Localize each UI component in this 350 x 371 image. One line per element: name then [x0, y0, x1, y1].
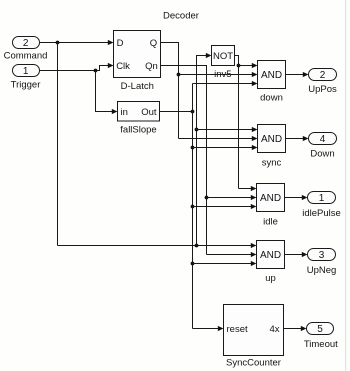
svg-text:reset: reset [227, 324, 248, 335]
svg-text:D: D [117, 38, 124, 49]
block AND sync [258, 125, 286, 169]
block AND up [257, 241, 285, 285]
junction dot fallSlope at up in3 [191, 262, 195, 266]
svg-text:Trigger: Trigger [11, 80, 41, 91]
wire Q output bus [161, 43, 179, 139]
svg-text:down: down [260, 92, 283, 103]
svg-text:AND: AND [261, 70, 282, 81]
wire SyncCounter out to Timeout [284, 326, 307, 331]
inport 1 Trigger [11, 65, 41, 91]
block AND idle [257, 184, 285, 228]
wire fallSlope bus vertical [192, 84, 194, 329]
svg-text:fallSlope: fallSlope [120, 124, 156, 135]
wire NOT branch to down AND in1 [239, 63, 258, 68]
svg-text:5: 5 [317, 324, 323, 335]
inport 2 Command [4, 37, 48, 62]
wire NOT out to idle AND in1 [239, 186, 257, 191]
junction dot fallSlope Out joins bus [191, 110, 195, 114]
wire Qn to up AND in2 [207, 252, 257, 257]
svg-text:2: 2 [320, 70, 326, 81]
junction dot Trigger branch [94, 69, 98, 73]
outport 4 Down [309, 133, 337, 160]
junction dot Command riser at up in1 [195, 244, 199, 248]
outport 5 Timeout [304, 323, 338, 351]
outport 1 idlePulse [302, 192, 341, 219]
svg-text:up: up [265, 273, 276, 284]
outport 2 UpPos [308, 69, 337, 95]
svg-text:Timeout: Timeout [304, 339, 338, 350]
svg-text:NOT: NOT [213, 51, 233, 62]
svg-text:SyncCounter: SyncCounter [226, 358, 281, 369]
svg-text:UpPos: UpPos [308, 84, 337, 95]
svg-text:1: 1 [319, 193, 325, 204]
svg-text:idle: idle [263, 216, 278, 227]
block AND down [258, 61, 286, 104]
wire Trigger horizontal [40, 70, 96, 72]
svg-text:Q: Q [150, 38, 157, 49]
block SyncCounter [224, 305, 284, 369]
wire fallSlope Out to bus [160, 111, 193, 113]
svg-text:UpNeg: UpNeg [307, 265, 337, 276]
svg-text:AND: AND [260, 193, 281, 204]
wire Q to sync AND in2 [179, 136, 258, 141]
svg-text:4x: 4x [269, 324, 279, 335]
svg-text:AND: AND [260, 250, 281, 261]
junction dot Command riser at sync in1 [195, 128, 199, 132]
svg-text:idlePulse: idlePulse [302, 208, 341, 219]
svg-text:D-Latch: D-Latch [121, 81, 154, 92]
wire Q branch to down AND in2 [179, 72, 258, 77]
junction dot NOT out at down in1 [237, 64, 241, 68]
svg-text:Out: Out [141, 107, 157, 118]
wire up AND out to UpNeg [285, 252, 308, 257]
svg-text:3: 3 [319, 250, 325, 261]
svg-text:Clk: Clk [116, 61, 130, 72]
wire fallSlope branch to down AND in3 [193, 81, 258, 86]
svg-text:Qn: Qn [145, 61, 158, 72]
wire NOT output bus [235, 56, 239, 189]
wire down AND out to UpPos [286, 72, 309, 77]
svg-text:1: 1 [23, 66, 29, 77]
svg-text:in: in [121, 107, 128, 118]
block D-Latch [114, 31, 161, 92]
wire idle AND out to idlePulse [285, 195, 308, 200]
svg-text:Command: Command [4, 51, 48, 62]
wire Qn output bus [161, 66, 207, 255]
outport 3 UpNeg [307, 249, 337, 277]
junction dot Qn at idle in2 [205, 196, 209, 200]
wire Command bottom run to up AND in1 [58, 243, 257, 248]
wire fallSlope bus to SyncCounter reset [193, 326, 224, 331]
wire Command to D input [40, 40, 114, 45]
wire Command riser to NOT input [197, 53, 212, 246]
block fallSlope [118, 102, 160, 136]
wire sync AND out to Down [286, 136, 309, 141]
wire Command vertical bus down [57, 43, 59, 246]
wire fallSlope branch to up AND in3 [193, 261, 257, 266]
wire fallSlope branch to idle AND in3 [193, 204, 257, 209]
block NOT inv5 [212, 46, 235, 81]
junction dot Q at down in2 [177, 73, 181, 77]
svg-text:sync: sync [262, 157, 282, 168]
junction dot fallSlope at idle in3 [191, 205, 195, 209]
scan edge artifact line [345, 0, 347, 371]
svg-text:Down: Down [310, 148, 334, 159]
svg-text:2: 2 [23, 38, 29, 49]
wire Trigger jog to Clk input [96, 63, 114, 71]
wire fallSlope branch to sync AND in3 [193, 145, 258, 150]
junction dot fallSlope at sync in3 [191, 146, 195, 150]
junction dot Command branch [56, 41, 60, 45]
wire Trigger down to fallSlope in [96, 71, 118, 115]
wire Qn branch to idle AND in2 [207, 195, 257, 200]
wire Command branch to sync AND in1 [197, 127, 258, 132]
svg-text:Decoder: Decoder [163, 11, 199, 22]
svg-text:4: 4 [320, 134, 326, 145]
svg-text:AND: AND [261, 134, 282, 145]
